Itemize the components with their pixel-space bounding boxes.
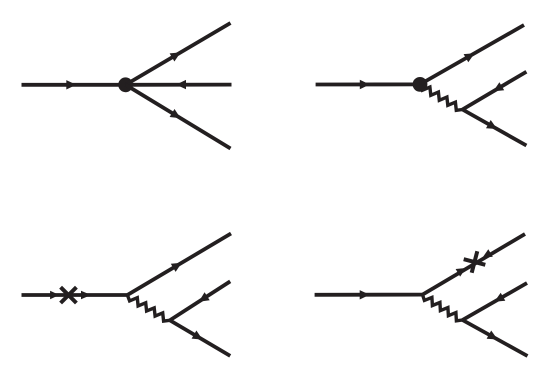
wire: BL upper outgoing fermion line xyxy=(127,234,231,296)
arrowhead on TL incoming line (rightward) xyxy=(66,80,76,89)
arrowhead on TR middle line (down-left, into vertex) xyxy=(493,82,504,91)
wire: BR middle fermion line (from upper right) xyxy=(463,283,528,320)
wire: BL lower outgoing fermion line xyxy=(170,320,230,356)
X mass-insertion cross on BR upper line xyxy=(464,251,486,273)
wire: TR middle fermion line (from upper right) xyxy=(463,72,527,110)
wire: BR upper outgoing fermion line xyxy=(423,234,526,295)
X mass-insertion cross on BL incoming line xyxy=(61,287,77,303)
arrowhead on TL middle line (leftward, antiparticle) xyxy=(176,80,186,89)
arrowhead on TR upper line (up-right) xyxy=(464,53,475,62)
arrowhead on BL upper line (up-right) xyxy=(171,263,182,272)
arrowhead on BR upper line pointing down-left into X xyxy=(482,249,492,258)
wire: BL middle fermion line (from upper right) xyxy=(170,281,230,320)
arrowhead on BL lower line (down-right) xyxy=(192,331,203,340)
wire: TL upper outgoing fermion line xyxy=(126,23,231,85)
arrowhead on BL middle line (down-left, into vertex) xyxy=(199,292,210,301)
boson zigzag propagator BL xyxy=(127,295,169,321)
arrowhead on TL upper line (up-right) xyxy=(170,52,181,61)
wire: TR incoming fermion line xyxy=(316,83,420,87)
wire: TR lower outgoing fermion line xyxy=(463,110,527,146)
wire: BL incoming fermion line xyxy=(22,293,128,297)
arrowhead on BR incoming line (rightward) xyxy=(360,290,370,299)
arrowhead on TR lower line (down-right) xyxy=(486,120,497,129)
boson zigzag propagator TR xyxy=(420,84,463,110)
wire: TL lower outgoing fermion line xyxy=(126,85,231,149)
boson zigzag propagator BR xyxy=(423,295,463,321)
wire: BR lower outgoing fermion line xyxy=(463,320,528,356)
vertex blob TL xyxy=(118,77,133,92)
wire: BR incoming fermion line xyxy=(315,293,423,297)
arrowhead on BR lower line (down-right) xyxy=(487,331,498,340)
arrowhead on BL incoming line after X xyxy=(81,291,91,300)
wire: TL middle outgoing line xyxy=(126,83,232,87)
vertex blob TR xyxy=(413,77,428,92)
arrowhead on TR incoming line (rightward) xyxy=(360,80,370,89)
wire: TR upper outgoing fermion line xyxy=(420,25,524,84)
arrowhead on BR middle line (down-left, into vertex) xyxy=(494,293,505,302)
arrowhead on TL lower line (down-right) xyxy=(170,109,181,118)
wire: TL incoming fermion line xyxy=(22,83,126,87)
arrowhead on BR upper line pointing up-right into X xyxy=(456,268,466,277)
arrowhead on BL incoming line before X xyxy=(50,291,59,300)
